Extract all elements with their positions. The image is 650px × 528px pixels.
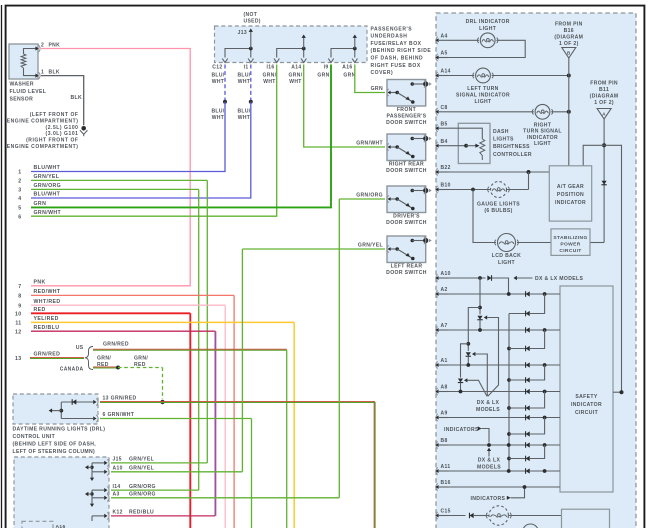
svg-text:BLU/: BLU/ [237,109,250,115]
svg-text:7: 7 [18,284,21,290]
svg-text:DX & LX MODELS: DX & LX MODELS [535,276,583,282]
svg-text:A3: A3 [113,492,120,498]
svg-text:2: 2 [18,179,21,185]
svg-text:SIGNAL INDICATOR: SIGNAL INDICATOR [456,92,510,98]
svg-text:OF DASH, BEHIND: OF DASH, BEHIND [371,56,424,62]
svg-text:A1: A1 [441,358,448,364]
svg-text:B4: B4 [441,139,448,145]
svg-text:DOOR SWITCH: DOOR SWITCH [386,120,427,126]
svg-text:LEFT REAR: LEFT REAR [391,264,423,270]
svg-text:GRN/ORG: GRN/ORG [129,492,156,498]
svg-text:COVER): COVER) [371,70,394,76]
svg-text:J15: J15 [113,457,122,463]
svg-text:B: B [567,51,571,56]
svg-text:DRL INDICATOR: DRL INDICATOR [466,19,510,25]
svg-text:A2: A2 [441,287,448,293]
svg-text:ENGINE COMPARTMENT): ENGINE COMPARTMENT) [7,144,79,150]
svg-text:GRN/YEL: GRN/YEL [358,243,383,249]
svg-text:LEFT TURN: LEFT TURN [467,86,498,92]
svg-text:PNK: PNK [49,42,61,48]
svg-text:B10: B10 [441,183,451,189]
svg-text:WHT/RED: WHT/RED [34,299,61,305]
svg-text:J13: J13 [238,30,247,36]
svg-text:A8: A8 [441,385,448,391]
svg-text:WHT: WHT [238,79,250,85]
svg-text:RED/WHT: RED/WHT [34,289,61,295]
svg-text:ENGINE COMPARTMENT): ENGINE COMPARTMENT) [7,118,79,124]
svg-text:GRN/YEL: GRN/YEL [129,457,154,463]
svg-text:A14: A14 [291,65,301,71]
svg-text:BLU/: BLU/ [211,73,224,79]
svg-text:RIGHT REAR: RIGHT REAR [389,162,424,168]
svg-text:A5: A5 [441,51,448,57]
svg-text:A16: A16 [56,524,66,528]
svg-text:I1: I1 [244,65,249,71]
svg-text:GRN/: GRN/ [134,356,148,362]
svg-text:GRN/YEL: GRN/YEL [34,174,60,180]
svg-text:(6 BULBS): (6 BULBS) [484,208,512,214]
svg-text:BLU/WHT: BLU/WHT [34,192,61,198]
svg-text:LIGHT: LIGHT [474,99,492,105]
svg-text:GRN/ORG: GRN/ORG [34,183,62,189]
svg-text:DRIVER'S: DRIVER'S [393,214,420,220]
svg-text:13: 13 [15,356,21,362]
svg-text:(DIAGRAM: (DIAGRAM [590,93,619,99]
svg-text:BRIGHTNESS: BRIGHTNESS [493,144,530,150]
svg-text:BLK: BLK [49,69,60,75]
svg-text:C8: C8 [441,105,448,111]
svg-text:TURN SIGNAL: TURN SIGNAL [523,129,562,135]
svg-text:WHT: WHT [212,115,224,121]
svg-text:BLU/: BLU/ [237,73,250,79]
svg-text:DX & LX: DX & LX [477,400,500,406]
svg-text:C12: C12 [212,65,222,71]
svg-text:GRN/RED: GRN/RED [103,341,129,347]
svg-text:(DIAGRAM: (DIAGRAM [554,35,583,41]
svg-text:PNK: PNK [34,280,46,286]
svg-text:12: 12 [15,329,21,335]
svg-text:(3.0L) G101: (3.0L) G101 [45,131,78,137]
svg-text:RED: RED [34,307,46,313]
svg-text:GRN/ORG: GRN/ORG [129,484,156,490]
svg-text:(BEHIND RIGHT SIDE: (BEHIND RIGHT SIDE [371,48,432,54]
svg-text:A14: A14 [441,69,451,75]
svg-text:B22: B22 [441,165,451,171]
svg-text:WASHER: WASHER [10,82,34,88]
svg-text:11: 11 [15,321,21,327]
svg-text:CONTROL UNIT: CONTROL UNIT [13,434,56,440]
svg-text:GRN/ORG: GRN/ORG [356,193,383,199]
svg-text:B16: B16 [564,28,574,34]
svg-text:(2.5L) G100: (2.5L) G100 [45,125,78,131]
svg-text:1 OF 2): 1 OF 2) [559,41,579,47]
svg-text:GRN: GRN [343,73,355,79]
svg-text:WHT: WHT [263,79,275,85]
svg-text:B16: B16 [441,480,451,486]
svg-text:WHT: WHT [289,79,301,85]
svg-text:4: 4 [18,196,21,202]
svg-text:MODELS: MODELS [476,407,500,413]
svg-text:INDICATOR: INDICATOR [527,135,558,141]
svg-text:I16: I16 [266,65,274,71]
svg-text:INDICATOR: INDICATOR [571,402,602,408]
svg-text:STABILIZING: STABILIZING [553,235,587,241]
svg-text:(BEHIND LEFT SIDE OF DASH,: (BEHIND LEFT SIDE OF DASH, [13,442,97,448]
svg-text:10: 10 [15,312,21,318]
svg-text:BLU/WHT: BLU/WHT [34,165,61,171]
svg-text:2: 2 [41,42,44,48]
svg-text:LIGHT: LIGHT [479,26,497,32]
svg-text:GRN/RED: GRN/RED [34,352,61,358]
svg-text:INDICATOR: INDICATOR [555,200,586,206]
svg-text:I9: I9 [324,65,329,71]
svg-text:POWER: POWER [560,241,580,247]
svg-text:DOOR SWITCH: DOOR SWITCH [386,168,427,174]
svg-text:CONTROLLER: CONTROLLER [493,152,532,158]
svg-text:FUSE/RELAY BOX: FUSE/RELAY BOX [371,41,422,47]
svg-text:A/T GEAR: A/T GEAR [557,184,584,190]
svg-text:LIGHT: LIGHT [498,260,516,266]
svg-text:1 OF 2): 1 OF 2) [594,100,614,106]
svg-text:INDICATORS: INDICATORS [471,496,506,502]
svg-text:9: 9 [18,303,21,309]
svg-text:GRN/: GRN/ [263,73,277,79]
svg-text:BLK: BLK [70,95,82,101]
svg-text:RIGHT FUSE BOX: RIGHT FUSE BOX [371,63,421,69]
svg-text:B11: B11 [599,87,609,93]
svg-text:B5: B5 [441,121,448,127]
svg-text:6 GRN/WHT: 6 GRN/WHT [103,412,135,418]
svg-text:FRONT: FRONT [397,107,417,113]
svg-text:GRN: GRN [371,86,383,92]
svg-text:SENSOR: SENSOR [10,96,34,102]
svg-text:A9: A9 [441,411,448,417]
svg-text:B8: B8 [441,438,448,444]
svg-text:1: 1 [41,69,44,75]
svg-text:MODELS: MODELS [477,464,501,470]
svg-text:GRN/WHT: GRN/WHT [34,210,62,216]
svg-text:A4: A4 [441,34,448,40]
svg-text:(NOT: (NOT [244,12,258,18]
svg-text:RED/BLU: RED/BLU [34,325,60,331]
svg-text:PASSENGER'S: PASSENGER'S [386,114,426,120]
svg-text:3: 3 [18,188,21,194]
svg-text:POSITION: POSITION [557,192,584,198]
svg-text:6: 6 [18,214,21,220]
svg-text:WHT: WHT [238,115,250,121]
svg-text:GRN/WHT: GRN/WHT [356,141,383,147]
svg-text:FLUID LEVEL: FLUID LEVEL [10,89,47,95]
svg-text:CANADA: CANADA [60,366,84,372]
svg-text:UNDERDASH: UNDERDASH [371,34,408,40]
svg-text:1: 1 [18,170,21,176]
svg-text:LIGHTS: LIGHTS [493,137,514,143]
svg-text:13 GRN/RED: 13 GRN/RED [103,396,137,402]
svg-text:US: US [76,345,84,351]
svg-text:I14: I14 [113,484,121,490]
svg-text:(LEFT FRONT OF: (LEFT FRONT OF [30,112,79,118]
svg-text:RIGHT: RIGHT [534,122,552,128]
svg-text:LEFT OF STEERING COLUMN): LEFT OF STEERING COLUMN) [13,449,96,455]
svg-text:A10: A10 [113,466,123,472]
svg-text:GRN: GRN [34,201,47,207]
svg-text:5: 5 [18,206,21,212]
svg-text:A16: A16 [342,65,352,71]
svg-text:GRN: GRN [317,73,329,79]
svg-text:LIGHT: LIGHT [534,141,552,147]
svg-text:DAYTIME RUNNING LIGHTS (DRL): DAYTIME RUNNING LIGHTS (DRL) [13,427,106,433]
svg-text:SAFETY: SAFETY [575,394,597,400]
svg-text:C15: C15 [441,509,451,515]
svg-text:GRN/YEL: GRN/YEL [129,466,154,472]
svg-text:DOOR SWITCH: DOOR SWITCH [386,220,427,226]
svg-text:A: A [602,112,606,117]
svg-text:GRN/: GRN/ [289,73,303,79]
svg-text:GRN/: GRN/ [97,356,111,362]
svg-text:DX & LX: DX & LX [478,458,501,464]
svg-text:BLU/: BLU/ [211,109,224,115]
svg-text:PASSENGER'S: PASSENGER'S [371,26,413,32]
svg-text:A11: A11 [441,464,451,470]
svg-text:(RIGHT FRONT OF: (RIGHT FRONT OF [26,138,78,144]
svg-text:YEL/RED: YEL/RED [34,316,59,322]
svg-text:CIRCUIT: CIRCUIT [575,410,599,416]
svg-text:8: 8 [18,294,21,300]
svg-text:USED): USED) [244,19,261,25]
svg-text:DOOR SWITCH: DOOR SWITCH [386,270,427,276]
svg-text:RED/BLU: RED/BLU [129,510,154,516]
svg-text:LCD BACK: LCD BACK [492,253,521,259]
svg-text:DASH: DASH [493,129,509,135]
svg-text:FROM PIN: FROM PIN [590,80,618,86]
svg-text:CIRCUIT: CIRCUIT [559,248,581,254]
svg-text:FROM PIN: FROM PIN [555,22,583,28]
svg-text:INDICATORS: INDICATORS [444,427,479,433]
svg-text:A10: A10 [441,271,451,277]
svg-text:K12: K12 [113,510,123,516]
svg-text:A7: A7 [441,323,448,329]
svg-text:WHT: WHT [212,79,224,85]
svg-text:GAUGE LIGHTS: GAUGE LIGHTS [477,202,520,208]
